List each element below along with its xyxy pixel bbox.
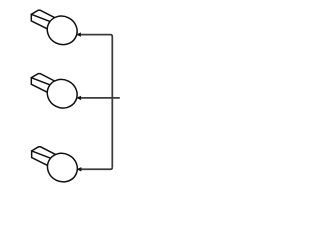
vertical bus wire [111,37,113,168]
wire from bus to lamp L1 (top horizontal) [80,35,113,37]
arrowhead into lamp L3 [76,167,81,171]
lamp L2 base (3D box) [31,74,58,97]
arrowhead into lamp L2 [76,96,81,100]
wire from bus to lamp L3 (bottom horizontal) [80,167,112,169]
wire to lamp L2 with input stub (middle horizontal, crosses bus junction) [80,97,120,99]
lamp L3 base (3D box) [32,147,59,170]
lamp L3 bulb (circle) [43,148,83,187]
arrowhead into lamp L1 [76,32,81,36]
lamp L1 base (3D box) [31,10,58,33]
lamp L2 bulb (circle) [42,74,82,113]
lamp L1 bulb (circle) [42,11,82,50]
